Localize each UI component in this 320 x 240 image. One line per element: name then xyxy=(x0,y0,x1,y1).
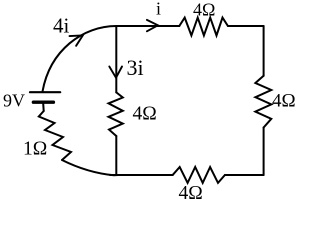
svg-text:3i: 3i xyxy=(127,55,144,80)
wire: top right xyxy=(228,25,264,27)
wire: middle branch below resistor xyxy=(115,136,117,175)
resistor R4 4ohm middle xyxy=(109,92,123,136)
resistor R1 4ohm top xyxy=(179,18,228,36)
svg-text:4Ω: 4Ω xyxy=(193,0,215,20)
arrowhead of current 3i on middle branch xyxy=(109,67,122,78)
resistor R2 4ohm right xyxy=(255,76,271,128)
battery V1 bottom plate (short, -) xyxy=(33,100,53,103)
arrowhead of current 4i on arc xyxy=(70,35,83,45)
battery V1 top plate (long, +) xyxy=(30,91,60,93)
wire: top segment from node to top resistor xyxy=(116,25,179,27)
wire: bottom left segment xyxy=(110,174,173,176)
wire: battery - terminal down to 1 ohm resistor xyxy=(42,104,45,112)
wire: arc from battery + terminal to top node xyxy=(43,26,117,92)
wire: curve from 1 ohm to bottom wire xyxy=(62,160,118,175)
wire: bottom right segment xyxy=(225,174,264,176)
svg-text:4i: 4i xyxy=(53,14,70,38)
wire: middle branch from top node xyxy=(115,26,117,92)
wire: right side down to resistor xyxy=(263,26,265,76)
svg-text:4Ω: 4Ω xyxy=(179,183,203,202)
resistor R5 1ohm diagonal xyxy=(39,111,71,160)
resistor R3 4ohm bottom xyxy=(173,167,225,183)
svg-text:4Ω: 4Ω xyxy=(133,104,157,125)
arrowhead of current i on top wire xyxy=(147,20,158,31)
wire: right side below resistor xyxy=(263,128,265,176)
svg-text:9V: 9V xyxy=(3,91,25,111)
svg-text:4Ω: 4Ω xyxy=(272,91,296,112)
svg-text:i: i xyxy=(156,0,161,19)
svg-text:1Ω: 1Ω xyxy=(23,139,47,160)
